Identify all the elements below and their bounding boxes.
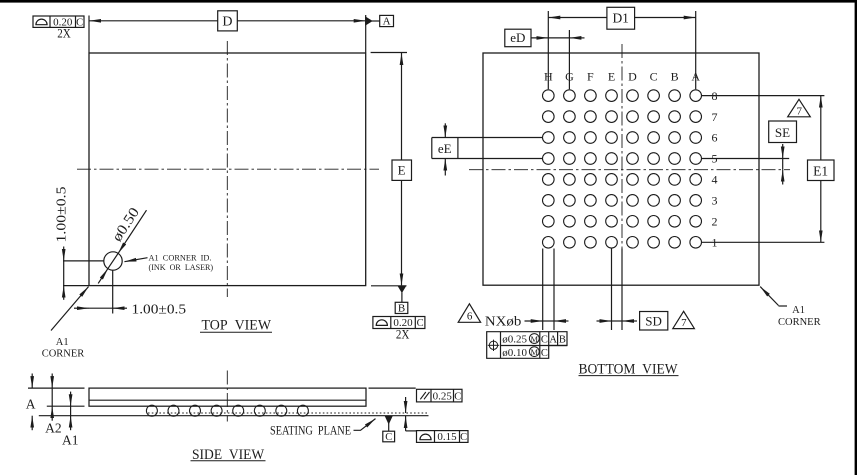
leader to A1 corner (top view) — [51, 287, 89, 331]
dimension E1 — [820, 96, 822, 117]
svg-text:M: M — [531, 334, 539, 344]
D dim extension line (right) — [365, 15, 367, 53]
svg-text:A: A — [549, 335, 557, 346]
D1 extension line (column A) — [695, 11, 697, 89]
svg-text:D: D — [222, 15, 232, 30]
feature control frame: parallelism 0.25 C — [417, 389, 463, 402]
svg-text:ø0.10: ø0.10 — [502, 347, 527, 359]
D1 extension line (column H) — [547, 11, 549, 89]
svg-text:1.00±0.5: 1.00±0.5 — [132, 303, 187, 318]
SD extension line (centerline) — [621, 249, 623, 331]
E dim extension line (top) — [371, 52, 407, 54]
eD extension line (column G) — [568, 30, 570, 89]
bottom view package outline — [483, 53, 759, 285]
top view vertical centerline — [226, 41, 228, 297]
SE arrow top — [782, 144, 784, 159]
svg-text:0.25: 0.25 — [433, 390, 453, 402]
dimension 0.15 zone — [405, 397, 407, 413]
svg-text:C: C — [650, 70, 658, 84]
leader to A1 corner (bottom view) — [760, 287, 778, 306]
extension line from A1 circle center (horizontal) — [63, 260, 104, 262]
E1 extension line (row 8) — [701, 95, 824, 97]
tolerance zone dotted line — [148, 412, 429, 414]
dimension SD box — [640, 312, 668, 331]
svg-text:A: A — [383, 16, 391, 28]
feature control frame: profile 0.20 C (top-left) — [33, 16, 84, 27]
svg-text:D1: D1 — [612, 10, 629, 25]
top view package outline — [89, 53, 366, 286]
dimension A — [31, 374, 33, 389]
E1 extension line (row 1) — [701, 241, 824, 243]
SD extension line (column E) — [611, 249, 613, 331]
position symbol — [489, 341, 497, 349]
svg-text:eD: eD — [510, 30, 525, 45]
svg-text:E1: E1 — [813, 163, 828, 178]
svg-text:C: C — [460, 432, 467, 443]
svg-text:B: B — [671, 70, 679, 84]
seating plane line — [39, 415, 429, 417]
svg-text:C: C — [454, 391, 461, 402]
note flag triangle 6 — [458, 304, 480, 323]
svg-text:CORNER: CORNER — [42, 348, 85, 359]
ball row numbers — [710, 90, 719, 101]
eD arrow right — [569, 37, 584, 39]
svg-text:C: C — [417, 318, 424, 329]
feature control frame: position 0.25/0.10 — [487, 332, 567, 359]
leader diameter 0.50 — [118, 210, 146, 253]
datum B symbol — [399, 287, 406, 293]
leader A1 corner id — [124, 258, 147, 262]
b dim arrow left — [525, 320, 543, 322]
svg-text:C: C — [385, 432, 392, 443]
svg-text:SEATING PLANE: SEATING PLANE — [270, 423, 351, 437]
svg-text:A1: A1 — [62, 433, 79, 448]
side view substrate line — [89, 399, 366, 401]
extension of package bottom edge (left) — [63, 285, 89, 287]
extension of body top (left) — [28, 387, 85, 389]
note flag triangle 7 (upper) — [788, 99, 811, 117]
eE arrow bottom — [444, 159, 446, 176]
svg-text:1.00±0.5: 1.00±0.5 — [55, 187, 70, 243]
svg-text:C: C — [541, 335, 548, 346]
svg-text:E: E — [608, 70, 615, 84]
svg-text:7: 7 — [797, 105, 803, 117]
svg-text:eE: eE — [438, 141, 452, 156]
svg-text:D: D — [628, 70, 637, 84]
datum A symbol — [366, 17, 372, 24]
dimension 1.00 +/- 0.5 (vertical) — [63, 261, 65, 286]
dimension 1.00 +/- 0.5 (horizontal) — [89, 307, 113, 309]
svg-text:SD: SD — [645, 314, 662, 329]
feature control frame: profile 0.20 C (bottom of top view) — [373, 317, 425, 329]
feature control frame: profile 0.15 C — [417, 431, 469, 443]
svg-text:7: 7 — [681, 317, 687, 329]
b dim extension line (ball H1 left) — [542, 249, 544, 331]
side view solder balls — [146, 405, 157, 416]
svg-text:TOP VIEW: TOP VIEW — [202, 318, 272, 334]
dimension A2 — [51, 388, 53, 406]
svg-text:B: B — [559, 335, 566, 346]
b dim arrow right — [554, 320, 569, 322]
extension of body bottom (left) — [47, 405, 85, 407]
dimension SE — [769, 121, 797, 143]
svg-text:B: B — [398, 303, 405, 315]
top view horizontal centerline — [77, 168, 379, 170]
svg-text:3: 3 — [712, 194, 718, 208]
bottom view vertical centerline — [621, 44, 623, 292]
svg-text:6: 6 — [467, 311, 473, 323]
svg-text:M: M — [531, 347, 539, 357]
b dim line segment — [543, 320, 554, 322]
dimension D1 — [548, 17, 570, 19]
solder ball grid 8x8 — [543, 90, 555, 102]
extension of body top (right) — [369, 387, 416, 389]
leader seating plane — [354, 419, 376, 431]
eD dim line segment — [548, 37, 569, 39]
note flag triangle 7 (lower) — [673, 311, 695, 328]
svg-text:NXøb: NXøb — [485, 315, 521, 330]
svg-text:A1: A1 — [56, 337, 69, 348]
svg-text:2X: 2X — [57, 25, 71, 40]
eE arrow top — [444, 123, 446, 137]
svg-text:(INK OR LASER): (INK OR LASER) — [149, 262, 214, 272]
svg-text:6: 6 — [712, 131, 718, 145]
SE extension line (row 5) — [701, 158, 789, 160]
dimension A1 — [70, 406, 72, 416]
svg-text:F: F — [587, 70, 594, 84]
SE arrow bottom — [782, 170, 784, 185]
A1 corner ID circle — [104, 252, 122, 270]
svg-text:A1: A1 — [792, 305, 805, 316]
svg-text:C: C — [76, 17, 83, 28]
eD arrow left — [531, 37, 548, 39]
extension line from A1 circle center (vertical) — [112, 271, 114, 314]
svg-text:SE: SE — [775, 125, 790, 140]
svg-text:ø0.25: ø0.25 — [502, 334, 527, 346]
side view package body — [89, 388, 366, 406]
SE dim line segment — [782, 159, 784, 170]
dimension D — [89, 20, 110, 22]
dimension eD — [505, 29, 531, 47]
svg-text:A2: A2 — [45, 421, 62, 436]
svg-text:7: 7 — [712, 110, 718, 124]
dimension E — [401, 53, 403, 75]
SD arrow left — [597, 320, 612, 322]
E dim extension line (bottom) — [371, 285, 407, 287]
bottom view horizontal centerline — [469, 169, 790, 171]
svg-text:2X: 2X — [396, 326, 410, 341]
dimension eE — [432, 137, 543, 139]
side view centerline — [226, 371, 228, 422]
svg-text:BOTTOM VIEW: BOTTOM VIEW — [579, 361, 679, 377]
svg-text:2: 2 — [712, 215, 718, 229]
SD dim line segment — [612, 320, 623, 322]
b dim extension line (ball H1 right) — [553, 249, 555, 331]
page right border — [855, 0, 857, 475]
svg-text:C: C — [541, 348, 548, 359]
D dim extension line (left) — [88, 16, 90, 53]
svg-text:E: E — [398, 163, 406, 178]
svg-text:4: 4 — [712, 173, 718, 187]
page top border — [0, 0, 857, 3]
svg-text:A: A — [26, 397, 36, 412]
datum C symbol — [386, 417, 392, 424]
svg-text:CORNER: CORNER — [778, 317, 821, 328]
svg-text:0.15: 0.15 — [437, 431, 457, 443]
SD arrow right — [622, 320, 637, 322]
